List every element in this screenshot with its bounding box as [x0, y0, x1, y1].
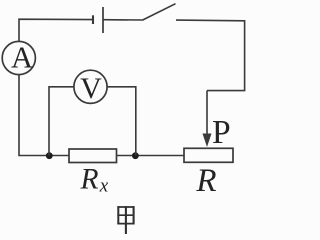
switch S lever — [143, 4, 176, 20]
svg-text:A: A — [11, 40, 33, 74]
ammeter A1 circle — [2, 41, 35, 74]
wire voltmeter branch right — [107, 87, 136, 156]
wire top-left corner — [19, 19, 93, 41]
slider arrow P head — [203, 134, 212, 148]
wire voltmeter branch left — [49, 87, 74, 156]
wire slider drop — [206, 91, 208, 136]
wire ammeter to bottom-left corner — [19, 75, 69, 156]
voltmeter V1 circle — [74, 70, 107, 103]
svg-text:P: P — [212, 114, 231, 151]
node junction left dot — [46, 152, 53, 159]
svg-text:V: V — [80, 72, 102, 105]
wire switch to top-right corner — [176, 20, 245, 91]
node junction right dot — [132, 152, 139, 159]
battery B1 short plate (negative) — [92, 15, 94, 24]
rheostat R box — [184, 148, 233, 162]
wire battery to switch — [103, 19, 143, 21]
resistor Rx box — [69, 149, 117, 163]
svg-text:x: x — [99, 175, 109, 196]
svg-text:R: R — [195, 163, 216, 199]
wire Rx to R — [117, 155, 185, 157]
battery B1 long plate (positive) — [102, 7, 104, 33]
svg-text:R: R — [79, 163, 98, 195]
label 甲 (caption) — [117, 206, 134, 234]
